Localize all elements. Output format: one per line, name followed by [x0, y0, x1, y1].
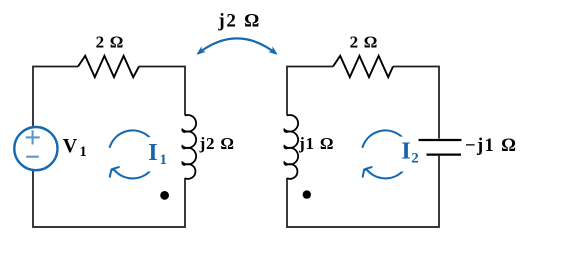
svg-text:j2 Ω: j2 Ω [217, 11, 261, 32]
svg-text:2: 2 [411, 151, 419, 167]
svg-text:1: 1 [160, 152, 168, 168]
svg-text:2 Ω: 2 Ω [350, 33, 378, 52]
svg-text:I: I [401, 139, 410, 165]
svg-text:j1 Ω: j1 Ω [298, 134, 334, 153]
svg-text:1: 1 [80, 144, 87, 160]
svg-text:j2 Ω: j2 Ω [199, 134, 235, 153]
svg-text:I: I [148, 140, 157, 166]
svg-text:V: V [63, 135, 78, 157]
svg-text:−j1 Ω: −j1 Ω [465, 136, 517, 156]
svg-text:2 Ω: 2 Ω [96, 33, 124, 52]
